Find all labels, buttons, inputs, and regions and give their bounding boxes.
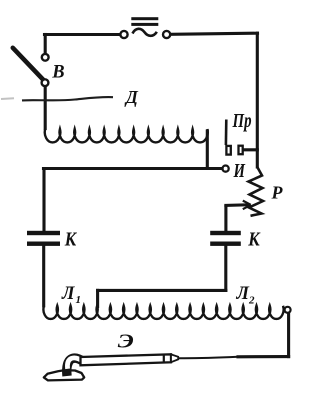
AC mains sine symbol <box>133 29 157 36</box>
wire rheostat tap arrow line <box>226 203 248 207</box>
svg-text:Э: Э <box>118 330 134 352</box>
wire left rail lower <box>42 246 45 306</box>
contact circle I <box>223 166 229 172</box>
svg-text:Л: Л <box>61 284 76 304</box>
wire top-left horizontal <box>45 33 120 36</box>
wire tap bracket drop <box>96 290 99 306</box>
wire left drop to switch <box>44 35 47 54</box>
inductor coil D <box>45 129 208 142</box>
svg-text:И: И <box>233 160 246 182</box>
wire thin lead to electrode <box>179 357 239 358</box>
wire bottom horizontal <box>238 355 289 358</box>
svg-text:1: 1 <box>76 294 82 306</box>
wire L2 end drop <box>287 313 290 356</box>
inductor coil L1 L2 <box>43 306 283 319</box>
svg-text:К: К <box>64 229 78 250</box>
wire coil D right drop <box>206 131 209 167</box>
electrode tube joint line <box>163 355 165 363</box>
wire interrupter to right rail <box>244 148 257 151</box>
svg-text:Д: Д <box>124 87 139 107</box>
interrupter right contact block <box>239 146 243 155</box>
wire left rail upper <box>42 169 45 231</box>
wire top-right horizontal <box>171 33 258 34</box>
wire middle horizontal <box>44 167 222 170</box>
AC mains source bars <box>131 17 158 26</box>
interrupter left contact block <box>226 146 230 155</box>
svg-text:Пр: Пр <box>232 110 252 132</box>
svg-text:2: 2 <box>248 295 255 307</box>
svg-text:В: В <box>51 62 64 82</box>
wire right capacitor top lead <box>224 207 227 231</box>
electrode tube body <box>81 354 172 365</box>
AC terminal circle right <box>163 31 170 38</box>
L2 end rise <box>283 307 285 310</box>
stray scan stroke across switch wire <box>22 97 113 100</box>
terminal circle L2 end <box>285 307 291 313</box>
AC terminal circle left <box>120 31 127 38</box>
interrupter stub arm <box>225 120 228 146</box>
rheostat P zigzag <box>249 167 264 216</box>
switch V bottom contact circle <box>42 79 49 86</box>
switch V blade <box>13 48 43 80</box>
svg-text:К: К <box>247 230 261 251</box>
capacitor K right plates <box>210 231 241 246</box>
wire tap bracket horizontal <box>98 289 226 292</box>
wire right rail <box>256 33 259 167</box>
electrode tip wedge <box>171 354 178 362</box>
electrode foot <box>44 370 84 380</box>
wire switch to coil D <box>44 87 47 129</box>
switch V top contact circle <box>42 54 49 61</box>
rheostat arrow head <box>243 201 251 210</box>
wire right capacitor bottom lead <box>224 246 227 291</box>
electrode handle elbow <box>67 358 84 376</box>
stray scan dash left edge <box>1 97 14 100</box>
capacitor K left plates <box>27 231 60 246</box>
svg-text:Р: Р <box>271 183 284 203</box>
